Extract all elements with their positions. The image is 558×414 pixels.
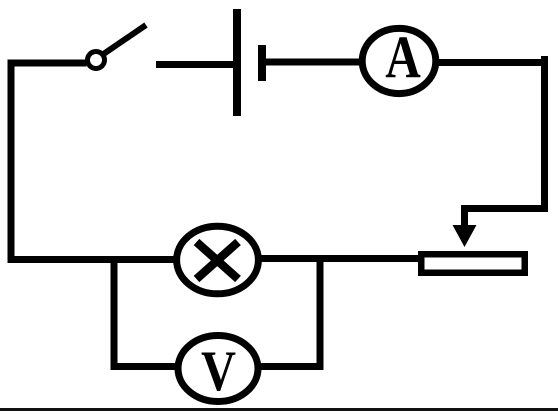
wire voltmeter branch right vertical: [317, 256, 324, 370]
wire voltmeter branch bottom right: [260, 363, 324, 370]
wire voltmeter branch bottom left: [111, 363, 177, 370]
wire rheostat to lamp: [260, 255, 421, 262]
page rule bottom border: [0, 408, 558, 411]
ammeter A body: [362, 28, 436, 93]
rheostat R body: [421, 254, 525, 273]
switch S1 lever: [104, 25, 147, 54]
wire top-left horizontal: [8, 60, 87, 67]
svg-text:V: V: [201, 340, 236, 402]
wire voltmeter branch left vertical: [111, 256, 118, 370]
lamp L1 cross stroke 1: [197, 242, 239, 279]
wire left vertical: [8, 60, 15, 263]
switch S1 pivot: [88, 52, 105, 69]
wiper arrowhead: [453, 225, 477, 247]
lamp L1 cross stroke 2: [197, 242, 239, 279]
wire bottom-left horizontal: [8, 256, 176, 263]
svg-text:A: A: [385, 23, 421, 90]
voltmeter V body: [178, 336, 258, 402]
wire battery to ammeter: [266, 59, 361, 66]
battery short plate: [258, 45, 266, 81]
wiper arrow shaft: [461, 205, 468, 226]
battery long plate: [233, 9, 241, 116]
wire to wiper: [461, 205, 548, 212]
lamp L1 body: [177, 226, 259, 294]
wire ammeter to right corner: [438, 59, 546, 66]
wire right vertical: [541, 56, 548, 212]
wire switch to battery: [156, 61, 233, 68]
